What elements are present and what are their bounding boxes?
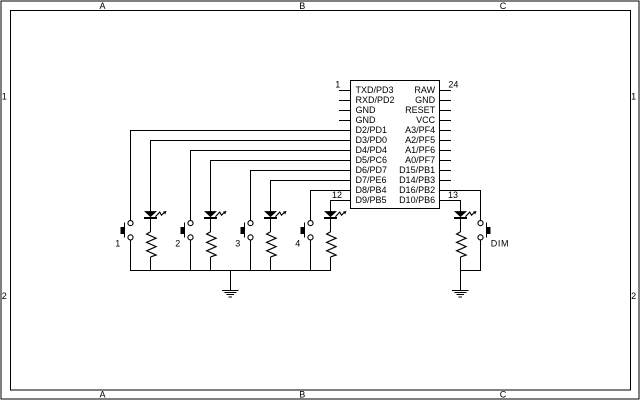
svg-text:D7/PE6: D7/PE6 (356, 175, 387, 185)
svg-text:B: B (299, 390, 305, 400)
svg-text:D14/PB3: D14/PB3 (399, 175, 435, 185)
svg-text:3: 3 (235, 239, 240, 249)
ground (right) (452, 290, 468, 296)
svg-text:GND: GND (415, 95, 436, 105)
LED4 (324, 211, 347, 219)
U1 right pin stub RESET (pin 22) (440, 109, 452, 111)
svg-text:GND: GND (356, 115, 377, 125)
U1 right pin stub RAW (pin 24) (440, 89, 452, 91)
wire U1 D2/PD1 to switch S1 (131, 130, 351, 220)
LED3 (264, 211, 287, 219)
U1 right pin stub VCC (pin 21) (440, 119, 452, 121)
wire U1 D10/PB6 to LED5 (440, 200, 461, 211)
U1 right pin stub A2/PF5 (pin 19) (440, 139, 452, 141)
svg-text:C: C (500, 390, 507, 400)
U1 left pin stub D2/PD1 (pin 5) (339, 129, 350, 131)
wire left GND rail to ground stem (230, 270, 232, 290)
svg-text:VCC: VCC (416, 115, 436, 125)
U1 left pin stub TXD/PD3 (pin 1) (339, 89, 350, 91)
svg-text:C: C (500, 1, 507, 11)
svg-text:D9/PB5: D9/PB5 (356, 195, 387, 205)
U1 left pin stub D3/PD0 (pin 6) (339, 139, 350, 141)
svg-text:12: 12 (332, 190, 342, 200)
svg-text:GND: GND (356, 105, 377, 115)
svg-text:D16/PB2: D16/PB2 (399, 185, 435, 195)
pushbutton S2 (181, 221, 193, 240)
wire S3 to GND rail (250, 240, 252, 270)
resistor R4 (327, 232, 337, 257)
U1 right pin stub A0/PF7 (pin 17) (440, 159, 452, 161)
svg-text:B: B (299, 1, 305, 11)
wire R4 to GND rail (330, 257, 332, 271)
wire R2 to GND rail (210, 257, 212, 271)
svg-text:D6/PD7: D6/PD7 (356, 165, 388, 175)
U1 left pin stub RXD/PD2 (pin 2) (339, 99, 350, 101)
U1 left pin stub D6/PD7 (pin 9) (339, 169, 350, 171)
wire U1 D3/PD0 to LED1 (151, 140, 351, 211)
ground (left) (222, 290, 238, 296)
svg-text:D3/PD0: D3/PD0 (356, 135, 388, 145)
svg-text:1: 1 (2, 91, 7, 101)
wire LED5 to R5 (460, 219, 462, 232)
svg-text:D10/PB6: D10/PB6 (399, 195, 435, 205)
svg-text:A3/PF4: A3/PF4 (405, 125, 435, 135)
LED5 (454, 211, 477, 219)
U1 left pin stub D4/PD4 (pin 7) (339, 149, 350, 151)
wire U1 D8/PB4 to switch S4 (311, 190, 351, 220)
U1 left pin stub GND (pin 4) (339, 119, 350, 121)
svg-text:2: 2 (2, 291, 7, 301)
resistor R2 (207, 232, 217, 257)
wire U1 D9/PB5 to LED4 (331, 200, 351, 211)
svg-text:D4/PD4: D4/PD4 (356, 145, 388, 155)
svg-text:D15/PB1: D15/PB1 (399, 165, 435, 175)
svg-text:D8/PB4: D8/PB4 (356, 185, 387, 195)
U1 left pin stub D5/PC6 (pin 8) (339, 159, 350, 161)
svg-text:2: 2 (631, 291, 636, 301)
wire right GND rail to ground stem (460, 270, 462, 290)
LED1 (144, 211, 167, 219)
svg-text:D2/PD1: D2/PD1 (356, 125, 388, 135)
U1 right pin stub A3/PF4 (pin 20) (440, 129, 452, 131)
U1 right pin stub D10/PB6 (pin 13) (440, 199, 452, 201)
U1 right pin stub D14/PB3 (pin 15) (440, 179, 452, 181)
svg-text:A: A (99, 390, 105, 400)
wire S4 to GND rail (310, 240, 312, 270)
resistor R5 (457, 232, 467, 257)
svg-text:1: 1 (335, 80, 340, 90)
svg-text:DIM: DIM (491, 238, 509, 248)
resistor R1 (147, 232, 157, 257)
U1 right pin stub A1/PF6 (pin 18) (440, 149, 452, 151)
svg-text:24: 24 (448, 80, 458, 90)
pushbutton S4 (301, 221, 313, 240)
wire LED3 to R3 (270, 219, 272, 232)
U1 left pin stub D7/PE6 (pin 10) (339, 179, 350, 181)
svg-text:A: A (99, 1, 105, 11)
U1 left pin stub D9/PB5 (pin 12) (339, 199, 350, 201)
svg-text:RESET: RESET (405, 105, 436, 115)
svg-text:2: 2 (175, 239, 180, 249)
svg-text:4: 4 (295, 239, 300, 249)
svg-text:A0/PF7: A0/PF7 (405, 155, 435, 165)
wire U1 D16/PB2 to switch DIM (440, 190, 481, 220)
wire U1 D6/PD7 to switch S3 (251, 170, 351, 220)
svg-text:RXD/PD2: RXD/PD2 (356, 95, 395, 105)
wire U1 D5/PC6 to LED2 (211, 160, 351, 211)
wire LED2 to R2 (210, 219, 212, 232)
svg-text:RAW: RAW (414, 85, 435, 95)
svg-text:D5/PC6: D5/PC6 (356, 155, 388, 165)
wire U1 D7/PE6 to LED3 (271, 180, 351, 211)
U1 right pin stub D15/PB1 (pin 16) (440, 169, 452, 171)
svg-text:13: 13 (448, 190, 458, 200)
wire R5 to GND rail (460, 257, 462, 271)
wire left GND rail (130, 269, 331, 271)
wire R3 to GND rail (270, 257, 272, 271)
wire S2 to GND rail (190, 240, 192, 270)
LED2 (204, 211, 227, 219)
U1 right pin stub D16/PB2 (pin 14) (440, 189, 452, 191)
svg-text:1: 1 (115, 239, 120, 249)
pushbutton DIM (478, 221, 490, 240)
IC U1 Pro Micro body (351, 81, 440, 209)
U1 left pin stub D8/PB4 (pin 11) (339, 189, 350, 191)
resistor R3 (267, 232, 277, 257)
svg-text:A2/PF5: A2/PF5 (405, 135, 435, 145)
pushbutton S3 (241, 221, 253, 240)
pushbutton S1 (121, 221, 133, 240)
wire R1 to GND rail (150, 257, 152, 271)
wire S1 to GND rail (130, 240, 132, 270)
wire DIM switch to GND rail (480, 240, 482, 270)
wire right GND rail (460, 269, 481, 271)
svg-text:1: 1 (631, 91, 636, 101)
svg-text:TXD/PD3: TXD/PD3 (356, 85, 394, 95)
svg-text:A1/PF6: A1/PF6 (405, 145, 435, 155)
wire U1 D4/PD4 to switch S2 (191, 150, 351, 220)
U1 right pin stub GND (pin 23) (440, 99, 452, 101)
wire LED4 to R4 (330, 219, 332, 232)
U1 left pin stub GND (pin 3) (339, 109, 350, 111)
wire LED1 to R1 (150, 219, 152, 232)
